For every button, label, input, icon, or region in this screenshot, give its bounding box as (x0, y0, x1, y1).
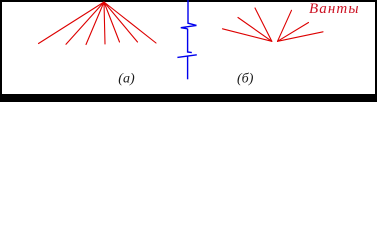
wire a1 (39, 2, 105, 44)
border frame right (375, 0, 377, 102)
wire a3 (86, 2, 104, 45)
wire a5 (104, 2, 120, 42)
figure (b): mast top with guy wires (223, 8, 324, 41)
guy b4 right steep (278, 10, 292, 41)
guy b1 left shallow (223, 29, 272, 42)
wire a7 (104, 2, 156, 43)
white background (0, 0, 377, 102)
guy b3 left steep (255, 8, 272, 41)
wire a2 (66, 2, 104, 44)
wire a4 (104, 2, 105, 44)
feeder upper segment (188, 0, 197, 25)
border frame top (0, 0, 377, 2)
svg-text:(б): (б) (237, 72, 254, 87)
border frame left (0, 0, 2, 102)
guy b6 right shallow (278, 32, 324, 42)
svg-text:(а): (а) (118, 72, 135, 87)
feeder line (blue) with break marks (177, 0, 196, 79)
feeder middle segment (188, 29, 192, 53)
break slash 2 (177, 55, 196, 58)
guy b5 right medium (278, 23, 309, 42)
feeder lower segment (187, 56, 189, 79)
break slash 1 (181, 25, 197, 28)
svg-text:Ванты: Ванты (309, 1, 360, 17)
border frame bottom band (0, 94, 377, 102)
guy b2 left medium (238, 18, 272, 42)
wire a6 (104, 2, 138, 42)
figure (a): umbrella antenna fan, apex at top (39, 2, 157, 45)
